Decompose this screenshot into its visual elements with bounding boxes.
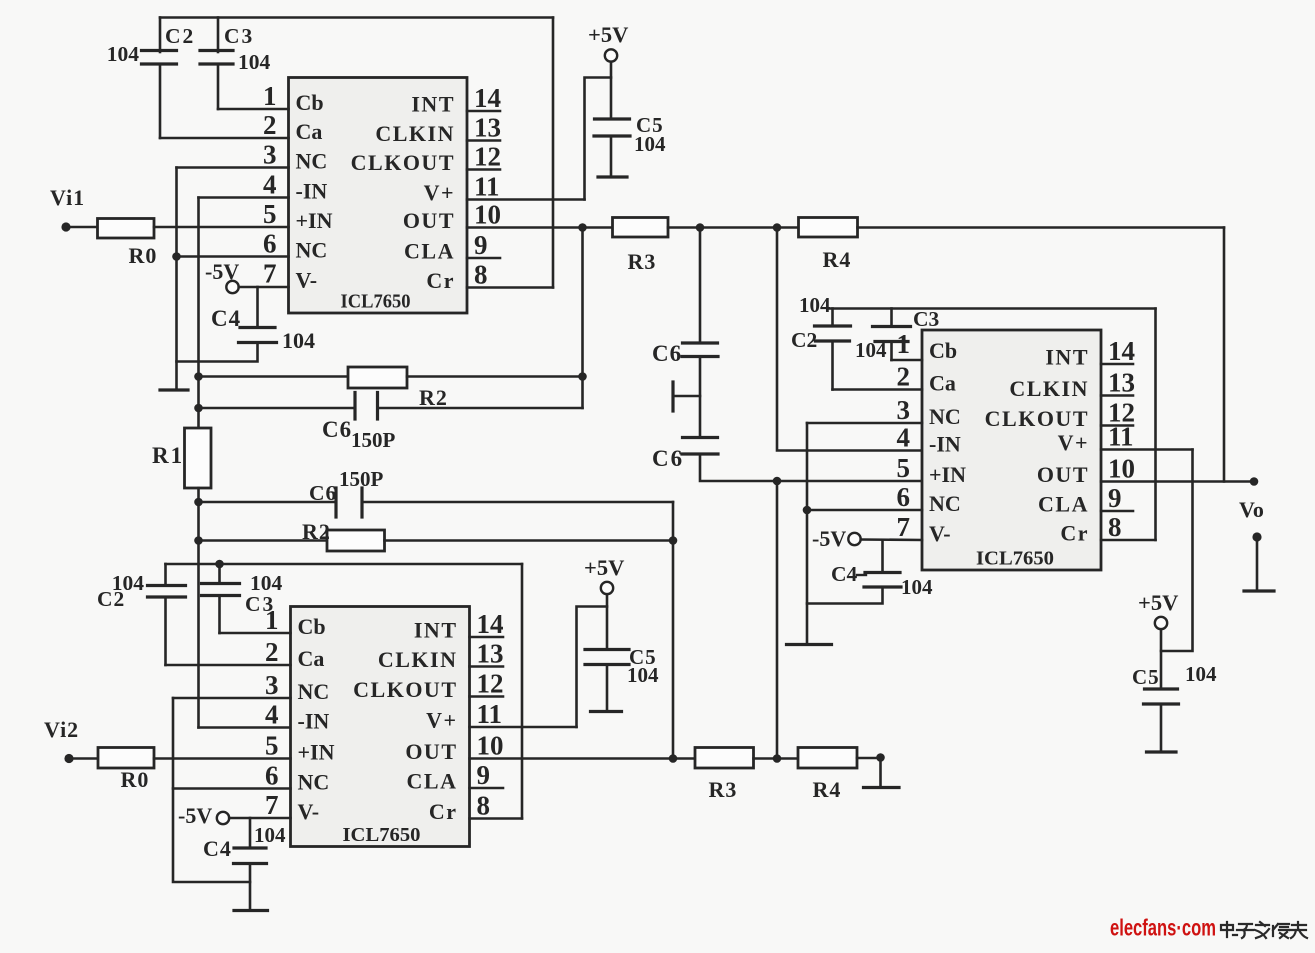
label R0 upper — [129, 243, 158, 268]
svg-text:14: 14 — [1108, 336, 1135, 366]
label 104 of C2 U2 — [112, 571, 145, 595]
U3 pin name Cr — [1060, 521, 1089, 546]
capacitor C5 stem bottom (U1) — [610, 136, 613, 176]
U3 pin name CLKOUT — [985, 406, 1089, 431]
svg-text:INT: INT — [411, 92, 455, 117]
svg-text:14: 14 — [477, 609, 504, 639]
svg-text:C6: C6 — [322, 417, 352, 442]
U2 pin number 10 — [477, 731, 504, 761]
svg-text:104: 104 — [254, 823, 286, 847]
U2 pin name V+ — [426, 708, 457, 733]
node R3b/R4b junction — [773, 754, 782, 763]
svg-text:OUT: OUT — [403, 208, 455, 233]
wire U2 NC tie-down — [173, 698, 250, 882]
U3 pin number 8 — [1108, 512, 1122, 542]
wire U3 pin 6 NC — [807, 509, 922, 512]
wire R0 to U1 pin 5 +IN — [154, 226, 289, 229]
svg-text:C4: C4 — [831, 562, 858, 586]
U3 pin name CLA — [1038, 492, 1089, 517]
wire U2 pin 2 Ca — [166, 664, 291, 667]
U2 pin number 9 — [477, 760, 491, 790]
svg-text:13: 13 — [474, 113, 501, 143]
U3 pin number 7 — [897, 512, 911, 542]
U1 pin number 5 — [263, 199, 277, 229]
power +5V terminal of U2 — [601, 582, 613, 594]
U3 pin number 1 — [897, 329, 911, 359]
U1 pin number 10 — [474, 200, 501, 230]
svg-text:C4: C4 — [203, 836, 232, 861]
capacitor C3 of U2 (104) — [202, 584, 240, 596]
U1 pin number 8 — [474, 260, 488, 290]
svg-text:NC: NC — [298, 770, 330, 795]
capacitor C4 stem bottom (U3) — [807, 587, 883, 604]
U3 pin number 3 — [897, 395, 911, 425]
label 104 of C4 U1 — [282, 328, 315, 353]
capacitor C6b (150P) plates — [336, 488, 362, 517]
U3 pin number 9 — [1108, 483, 1122, 513]
capacitor C6 ladder lower — [682, 438, 718, 455]
svg-text:+IN: +IN — [298, 740, 335, 765]
node U3 NC junction — [803, 506, 812, 515]
svg-text:7: 7 — [265, 790, 279, 820]
label C4 of U1 — [211, 306, 241, 331]
svg-text:6: 6 — [263, 229, 277, 259]
label R4 lower — [813, 777, 842, 802]
svg-text:10: 10 — [477, 731, 504, 761]
svg-text:Vi1: Vi1 — [50, 185, 85, 210]
svg-text:R2: R2 — [419, 385, 448, 410]
node C6 ladder tap — [696, 223, 705, 232]
svg-text:INT: INT — [414, 618, 458, 643]
resistor R1 — [185, 428, 212, 488]
svg-text:10: 10 — [474, 200, 501, 230]
svg-text:R4: R4 — [823, 247, 852, 272]
svg-text:104: 104 — [627, 663, 659, 687]
capacitor C3 of U3 (104) — [873, 327, 911, 342]
power -5V terminal of U1 — [226, 281, 238, 293]
svg-text:+5V: +5V — [584, 555, 624, 580]
svg-text:NC: NC — [296, 149, 328, 174]
U3 pin number 2 — [897, 362, 911, 392]
svg-text:C3: C3 — [913, 307, 940, 331]
node Vi2 input terminal — [64, 754, 73, 763]
svg-text:3: 3 — [263, 140, 277, 170]
capacitor C3 stem top — [217, 18, 220, 53]
wire U3 pin 3 NC — [807, 422, 922, 425]
wire U3 pin 2 Ca — [833, 388, 923, 391]
svg-text:OUT: OUT — [405, 739, 457, 764]
svg-text:C6: C6 — [309, 481, 337, 505]
label Vi1 — [50, 185, 85, 210]
U2 pin 13 stub — [470, 665, 504, 668]
label 150P upper — [351, 428, 396, 452]
label R0 lower — [121, 767, 150, 792]
capacitor C4 stem bottom (U2) — [249, 864, 252, 911]
svg-text:5: 5 — [263, 199, 277, 229]
U2 pin 12 stub — [470, 695, 504, 698]
label C2 of U2 — [97, 587, 125, 611]
U2 pin name Cb — [298, 614, 326, 639]
capacitor C4 of U2 (104) — [234, 848, 267, 864]
capacitor C2 (104) — [142, 51, 177, 65]
wire V+ riser of U2 — [577, 607, 608, 728]
resistor R4 (lower) — [798, 748, 857, 769]
svg-text:-5V: -5V — [178, 803, 212, 828]
U3 pin name V+ — [1058, 430, 1089, 455]
wire C6b left — [199, 501, 337, 504]
U1 pin name CLKIN — [375, 121, 455, 146]
label C5 of U2 — [629, 645, 657, 669]
svg-text:10: 10 — [1108, 454, 1135, 484]
power -5V terminal of U2 — [217, 812, 229, 824]
wire -5V to U1 pin 7 V- — [239, 286, 289, 289]
stub plate on ladder — [673, 382, 700, 411]
U1 pin name V- — [296, 268, 318, 293]
svg-text:ICL7650: ICL7650 — [976, 548, 1054, 570]
svg-text:CLA: CLA — [1038, 492, 1089, 517]
U3 pin number 13 — [1108, 368, 1135, 398]
wire U2 pin 1 Cb — [220, 632, 291, 635]
capacitor C2c stem top — [831, 309, 834, 327]
svg-text:C4: C4 — [211, 306, 241, 331]
svg-text:104: 104 — [855, 338, 887, 362]
U2 pin name NC — [298, 679, 330, 704]
label 104 of C5 U2 — [627, 663, 659, 687]
svg-text:7: 7 — [263, 259, 277, 289]
label 150P lower — [339, 467, 384, 491]
wire U2 pin 10 OUT — [470, 757, 696, 760]
label C2 — [165, 24, 195, 48]
svg-text:2: 2 — [263, 110, 277, 140]
node OUT/feedback junction U2 — [669, 754, 678, 763]
label C3 — [224, 24, 254, 48]
svg-text:V+: V+ — [1058, 430, 1089, 455]
node bus/R2a junction — [194, 372, 203, 381]
wire U2 pin 11 V+ — [470, 726, 577, 729]
wire output column drop — [1223, 228, 1226, 482]
U2 label ICL7650 — [343, 824, 421, 846]
svg-text:5: 5 — [897, 453, 911, 483]
svg-text:NC: NC — [296, 238, 328, 263]
svg-text:9: 9 — [474, 230, 488, 260]
svg-text:Vi2: Vi2 — [44, 717, 79, 742]
resistor R2 (lower) — [327, 530, 385, 551]
U2 pin number 6 — [265, 761, 279, 791]
capacitor C2b stem top — [164, 564, 167, 586]
svg-text:9: 9 — [477, 760, 491, 790]
capacitor C3b stem bottom — [218, 596, 221, 634]
svg-text:104: 104 — [107, 42, 140, 66]
svg-text:NC: NC — [298, 679, 330, 704]
U3 pin number 14 — [1108, 336, 1135, 366]
U2 pin number 11 — [477, 699, 503, 729]
capacitor C2 stem bottom to Ca — [159, 65, 162, 139]
watermark elecfans.com — [1110, 915, 1216, 941]
wire Cr riser of U3 — [1154, 309, 1157, 541]
U1 pin number 1 — [263, 81, 277, 111]
U3 pin 14 stub — [1101, 363, 1133, 366]
wire U2 pin 8 Cr — [470, 817, 523, 820]
ground bar below C4 U2 — [234, 909, 268, 912]
U1 pin number 3 — [263, 140, 277, 170]
U1 pin number 14 — [474, 83, 501, 113]
svg-text:6: 6 — [897, 482, 911, 512]
svg-text:CLA: CLA — [407, 769, 458, 794]
label R3 lower — [709, 777, 738, 802]
U3 pin name -IN — [929, 432, 961, 457]
U3 pin name V- — [929, 521, 951, 546]
svg-text:V+: V+ — [424, 180, 455, 205]
wire U1 pin 11 V+ — [467, 198, 585, 201]
svg-text:Cb: Cb — [929, 338, 957, 363]
wire right bus upper (to U3 -IN) — [777, 228, 922, 451]
U2 pin number 13 — [477, 639, 504, 669]
capacitor C5 stem top (U3) — [1160, 629, 1163, 689]
U3 label ICL7650 — [976, 548, 1054, 570]
wire U1 pin 1 Cb — [218, 108, 289, 111]
svg-text:150P: 150P — [351, 428, 396, 452]
wire U2 pin 6 NC — [173, 787, 291, 790]
node bus/C6b junction — [194, 498, 203, 507]
node bus/C6a junction — [194, 404, 203, 413]
U2 pin name NC — [298, 770, 330, 795]
wire NC tie-down of U1 — [175, 168, 178, 391]
U1 pin name NC — [296, 238, 328, 263]
label 104 of C3 U2 — [250, 571, 283, 595]
U1 pin name OUT — [403, 208, 455, 233]
svg-text:12: 12 — [474, 142, 501, 172]
label R2 lower — [302, 519, 331, 544]
svg-text:Cr: Cr — [426, 268, 455, 293]
wire Cr riser of U2 — [521, 564, 524, 819]
node U1 NC junction — [172, 252, 181, 261]
capacitor C4 stem top (U2) — [249, 818, 252, 848]
svg-text:3: 3 — [897, 395, 911, 425]
svg-text:104: 104 — [634, 132, 666, 156]
wire R0 to U2 pin 5 +IN — [154, 757, 291, 760]
svg-text:R3: R3 — [709, 777, 738, 802]
wire R2b right — [385, 539, 674, 542]
label Vi2 — [44, 717, 79, 742]
svg-text:R3: R3 — [628, 249, 657, 274]
svg-text:Ca: Ca — [298, 646, 325, 671]
node Vo terminal — [1252, 532, 1261, 541]
label C5 of U1 — [636, 113, 664, 137]
svg-text:V-: V- — [296, 268, 318, 293]
U1 pin name +IN — [296, 208, 333, 233]
label 104 of C4 U3 — [901, 575, 933, 599]
U3 pin number 5 — [897, 453, 911, 483]
U3 pin number 6 — [897, 482, 911, 512]
wire C6 ladder mid stem — [699, 357, 702, 438]
svg-text:C6: C6 — [652, 341, 682, 366]
svg-text:8: 8 — [477, 791, 491, 821]
svg-text:CLKIN: CLKIN — [378, 647, 458, 672]
label +5V of U3 — [1138, 590, 1178, 615]
svg-text:-5V: -5V — [812, 526, 846, 551]
power +5V terminal of U1 — [605, 49, 617, 61]
resistor R4 (upper) — [799, 218, 858, 238]
U3 pin 9 stub — [1101, 510, 1133, 513]
U3 pin 12 stub — [1101, 424, 1133, 427]
capacitor C4 stem bottom (U1) — [177, 343, 258, 362]
wire feedback riser of U2 — [672, 502, 675, 759]
svg-text:NC: NC — [929, 491, 961, 516]
U3 pin name NC — [929, 491, 961, 516]
svg-text:Cr: Cr — [429, 799, 458, 824]
svg-text:12: 12 — [477, 669, 504, 699]
wire top rail of U3 group — [828, 307, 1156, 310]
capacitor C5 of U2 (104) — [585, 650, 629, 665]
label Vo — [1239, 497, 1264, 522]
U1 pin name NC — [296, 149, 328, 174]
resistor R0 (lower) — [98, 748, 154, 769]
label -5V of U3 — [812, 526, 846, 551]
svg-text:elecfans·com: elecfans·com — [1110, 915, 1216, 941]
U2 pin name Ca — [298, 646, 325, 671]
label 104 of C3 U3 — [855, 338, 887, 362]
U2 pin number 8 — [477, 791, 491, 821]
capacitor C6a (150P) plates — [355, 393, 378, 420]
wire U3 pin 10 OUT to Vo — [1101, 480, 1254, 483]
label +5V of U1 — [588, 22, 628, 47]
label R3 upper — [628, 249, 657, 274]
label C6 ladder lower — [652, 446, 684, 471]
svg-text:OUT: OUT — [1037, 462, 1089, 487]
node +IN/R3b-R4b tap — [773, 477, 782, 486]
label 104 of C5 U1 — [634, 132, 666, 156]
svg-text:R4: R4 — [813, 777, 842, 802]
ground bar of C5 U3 — [1147, 750, 1177, 753]
resistor R0 (upper) — [98, 219, 155, 239]
wire C6 ladder to U3 +IN — [700, 454, 922, 481]
U3 pin name INT — [1045, 345, 1089, 370]
U2 pin number 1 — [265, 605, 279, 635]
wire Vi2 to R0 — [69, 757, 98, 760]
U2 pin name CLKIN — [378, 647, 458, 672]
U2 pin number 12 — [477, 669, 504, 699]
label C6 lower — [309, 481, 337, 505]
svg-text:+IN: +IN — [296, 208, 333, 233]
label C6 ladder upper — [652, 341, 682, 366]
svg-text:2: 2 — [897, 362, 911, 392]
svg-text:ICL7650: ICL7650 — [343, 824, 421, 846]
svg-text:CLKOUT: CLKOUT — [985, 406, 1089, 431]
label 104 of C4 U2 — [254, 823, 286, 847]
watermark chinese text — [1221, 922, 1307, 938]
U1 pin number 4 — [263, 170, 277, 200]
wire U3 pin 11 V+ — [1101, 448, 1193, 451]
svg-text:+5V: +5V — [588, 22, 628, 47]
capacitor C5 of U3 (104) — [1144, 689, 1179, 704]
svg-text:-IN: -IN — [296, 179, 328, 204]
U1 pin 14 stub — [467, 110, 500, 113]
U1 pin number 9 — [474, 230, 488, 260]
wire C6a right — [378, 407, 583, 410]
U3 pin name CLKIN — [1009, 376, 1089, 401]
label 104 of C5 U3 — [1185, 662, 1217, 686]
svg-text:14: 14 — [474, 83, 501, 113]
wire R2a right — [407, 375, 583, 378]
svg-text:R0: R0 — [121, 767, 150, 792]
U3 pin name Ca — [929, 371, 956, 396]
svg-text:CLKIN: CLKIN — [1009, 376, 1089, 401]
label R1 — [152, 443, 184, 468]
U2 pin name INT — [414, 618, 458, 643]
svg-text:104: 104 — [1185, 662, 1217, 686]
capacitor C5 stem top (U1) — [610, 62, 613, 119]
U1 pin name Ca — [296, 119, 323, 144]
wire -5V to U2 pin 7 V- — [229, 817, 290, 820]
node bus/R2b junction — [194, 536, 203, 545]
svg-text:R1: R1 — [152, 443, 184, 468]
svg-text:CLA: CLA — [404, 239, 455, 264]
U2 pin number 4 — [265, 700, 279, 730]
node R2b right junction — [669, 536, 678, 545]
wire U1 pin 3 NC — [177, 166, 289, 169]
svg-text:1: 1 — [263, 81, 277, 111]
capacitor C3 (104) — [200, 51, 233, 65]
capacitor C3c stem top — [890, 309, 893, 327]
capacitor C3c stem bottom — [890, 342, 893, 361]
U2 pin number 2 — [265, 637, 279, 667]
svg-text:NC: NC — [929, 404, 961, 429]
U1 pin number 6 — [263, 229, 277, 259]
label +5V of U2 — [584, 555, 624, 580]
U3 pin name Cb — [929, 338, 957, 363]
ground bar of R4b — [864, 786, 900, 789]
label -5V of U1 — [205, 259, 239, 284]
svg-text:C3: C3 — [245, 592, 275, 616]
label 104 of C3 — [238, 50, 271, 74]
svg-text:1: 1 — [897, 329, 911, 359]
capacitor C5 of U1 (104) — [594, 119, 630, 136]
svg-text:150P: 150P — [339, 467, 384, 491]
svg-text:104: 104 — [238, 50, 271, 74]
svg-text:13: 13 — [1108, 368, 1135, 398]
capacitor C2 of U3 (104) — [815, 326, 851, 341]
U1 pin number 12 — [474, 142, 501, 172]
U2 pin number 7 — [265, 790, 279, 820]
svg-text:C2: C2 — [97, 587, 125, 611]
svg-text:CLKOUT: CLKOUT — [351, 150, 455, 175]
U2 pin number 14 — [477, 609, 504, 639]
wire bus to U2 pin 4 -IN — [199, 726, 291, 729]
U1 label ICL7650 — [341, 291, 411, 313]
label C4 of U2 — [203, 836, 232, 861]
label C6 upper — [322, 417, 352, 442]
op-amp U3 ICL7650 body — [922, 330, 1101, 570]
capacitor C2 stem top — [159, 18, 162, 53]
wire U3 pin 8 Cr — [1101, 539, 1156, 542]
wire Vo terminal stub — [1256, 537, 1259, 590]
svg-text:-IN: -IN — [929, 432, 961, 457]
wire C6b right — [362, 501, 673, 504]
wire U3 NC tie-down — [806, 423, 809, 645]
U2 pin number 5 — [265, 731, 279, 761]
U3 pin name +IN — [929, 462, 966, 487]
label R2 upper — [419, 385, 448, 410]
svg-text:9: 9 — [1108, 483, 1122, 513]
U1 pin 13 stub — [467, 139, 500, 142]
wire Cr riser of U1 — [552, 18, 555, 288]
svg-text:Ca: Ca — [296, 119, 323, 144]
wire U1 pin 8 Cr — [467, 286, 553, 289]
wire feedback bus lower segment — [197, 488, 200, 728]
svg-text:C5: C5 — [1132, 665, 1160, 689]
wire Vi1 to R0 — [66, 226, 98, 229]
wire U3 pin 1 Cb — [892, 359, 923, 362]
